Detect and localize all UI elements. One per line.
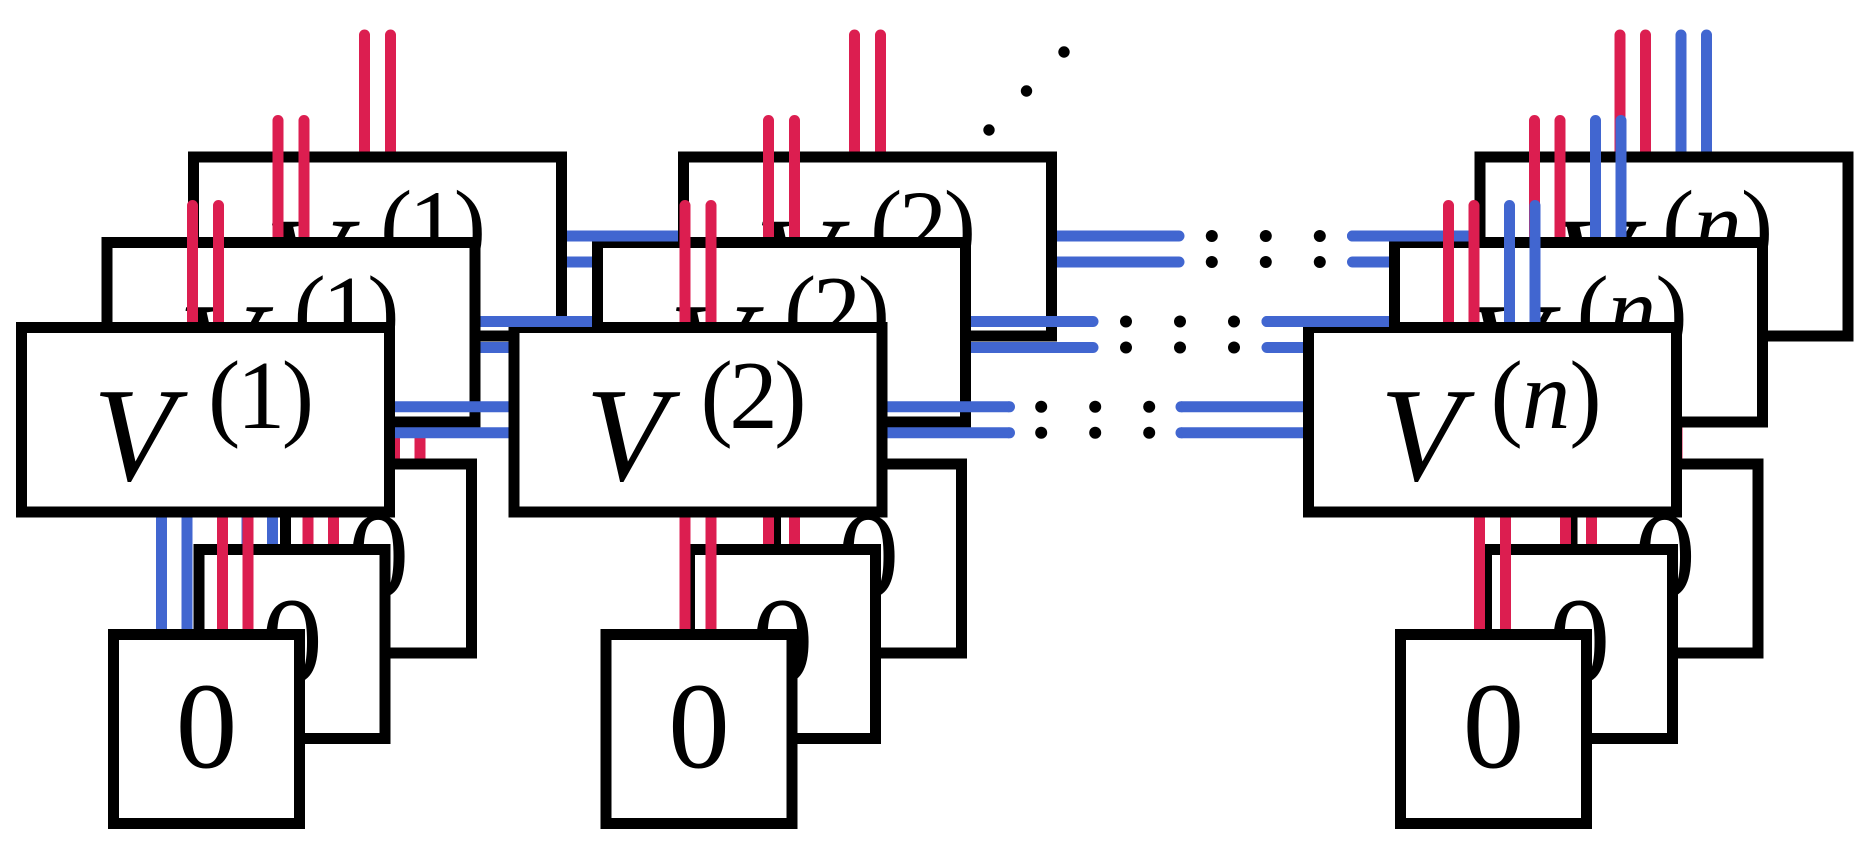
svg-text:0: 0 — [668, 658, 730, 795]
svg-text:V: V — [586, 361, 681, 509]
V box V^(n) group 3 layer 2 — [1480, 157, 1848, 336]
red leg 2 top of V group n layer 2 — [1640, 35, 1651, 158]
wire: upper bond line group1-group2 layer 2 — [567, 231, 678, 242]
red input leg 1 top of V group 1 layer 2 — [359, 35, 370, 158]
red leg 3 V-to-zero group 1 layer 1 — [303, 422, 314, 551]
wire: upper bond stub right of group2 layer 2 — [1057, 231, 1179, 242]
svg-text:V: V — [93, 361, 188, 509]
blue leg 4 top of V group n layer 0 — [1530, 206, 1541, 329]
red leg 1 top of V group n layer 1 — [1529, 121, 1540, 244]
red leg 1 V-to-zero group 3 layer 2 — [1646, 336, 1657, 465]
ellipsis dots on bond lines layer 0 — [1035, 401, 1047, 413]
svg-text:(1): (1) — [208, 342, 311, 449]
red leg 2 V-to-zero group 3 layer 2 — [1672, 336, 1683, 465]
blue leg 4 top of V group n layer 2 — [1701, 35, 1712, 158]
V box V^(1) group 1 layer 2 — [194, 157, 562, 336]
red leg 1 top of V group n layer 2 — [1615, 35, 1626, 158]
zero box group 2 layer 2 — [776, 464, 962, 653]
wire: upper bond stub right of group2 layer 0 — [888, 401, 1010, 412]
blue leg 2 V-to-zero group 1 layer 0 — [182, 512, 193, 636]
red leg 1 top of V group n layer 0 — [1443, 206, 1454, 329]
wire: upper bond stub left of group-n layer 1 — [1267, 316, 1389, 327]
red input leg 1 top of V group 1 layer 0 — [187, 206, 198, 329]
red input leg 2 top of V group 1 layer 2 — [385, 35, 396, 158]
red leg 4 V-to-zero group 1 layer 2 — [415, 336, 426, 465]
red input leg 2 top of V group 1 layer 1 — [299, 121, 310, 244]
V box V^(n) group 3 layer 0 — [1309, 328, 1677, 513]
blue leg 3 top of V group n layer 2 — [1676, 35, 1687, 158]
red leg 2 top of V group n layer 1 — [1555, 121, 1566, 244]
zero box group 3 layer 0 — [1401, 635, 1587, 824]
red input leg 2 top of V group 2 layer 2 — [875, 35, 886, 158]
zero box group 1 layer 1 — [199, 550, 385, 739]
wire overlay: upper middle bond stub left of group-n over front box corner — [1267, 316, 1389, 327]
red leg 2 V-to-zero group 3 layer 0 — [1500, 512, 1511, 636]
wire: upper bond line group1-group2 layer 0 — [395, 401, 509, 412]
zero box group 2 layer 0 — [606, 635, 792, 824]
blue leg 2 V-to-zero group 1 layer 2 — [354, 336, 365, 465]
wire: lower bond stub right of group2 layer 0 — [888, 427, 1010, 438]
wire overlay: upper back bond stub left of group-n over middle box corner — [1353, 231, 1475, 242]
red leg 3 V-to-zero group 1 layer 0 — [217, 512, 228, 636]
ellipsis dots on bond lines layer 1 — [1120, 316, 1132, 328]
V box V^(2) group 2 layer 2 — [684, 157, 1052, 336]
wire: upper bond line group1-group2 layer 1 — [481, 316, 593, 327]
blue leg 1 V-to-zero group 1 layer 2 — [328, 336, 339, 465]
zero box group 3 layer 1 — [1487, 550, 1673, 739]
red input leg 1 top of V group 1 layer 1 — [273, 121, 284, 244]
wire: lower bond stub left of group-n layer 0 — [1181, 427, 1303, 438]
wire: upper bond stub left of group-n layer 2 — [1353, 231, 1475, 242]
blue leg 4 top of V group n layer 1 — [1616, 121, 1627, 244]
red leg 1 V-to-zero group 3 layer 0 — [1474, 512, 1485, 636]
blue leg 1 V-to-zero group 1 layer 0 — [156, 512, 167, 636]
wire: lower bond stub right of group2 layer 1 — [971, 342, 1093, 353]
wire overlay: upper back bond group1-group2 over middle box corner — [567, 231, 678, 242]
blue leg 2 V-to-zero group 1 layer 1 — [267, 422, 278, 551]
zero box group 1 layer 2 — [286, 464, 472, 653]
V box V^(1) group 1 layer 1 — [107, 243, 475, 423]
svg-text:0: 0 — [176, 658, 238, 795]
red leg 4 V-to-zero group 1 layer 1 — [328, 422, 339, 551]
red input leg 2 top of V group 1 layer 0 — [213, 206, 224, 329]
red input leg 2 top of V group 2 layer 0 — [706, 206, 717, 329]
red input leg 2 top of V group 2 layer 1 — [789, 121, 800, 244]
V box V^(2) group 2 layer 1 — [598, 243, 966, 423]
wire overlay: upper middle bond group1-group2 over front box corner — [481, 316, 593, 327]
red leg 1 V-to-zero group 3 layer 1 — [1560, 422, 1571, 551]
red leg 2 V-to-zero group 2 layer 1 — [789, 422, 800, 551]
red input leg 1 top of V group 2 layer 0 — [680, 206, 691, 329]
wire: lower bond line group1-group2 layer 2 — [567, 257, 678, 268]
V box V^(2) group 2 layer 0 — [514, 328, 882, 513]
svg-text:0: 0 — [1463, 658, 1525, 795]
red input leg 1 top of V group 2 layer 2 — [849, 35, 860, 158]
svg-text:V: V — [1380, 361, 1475, 509]
svg-text:(n): (n) — [1491, 342, 1601, 449]
wire: upper bond stub right of group2 layer 1 — [971, 316, 1093, 327]
wire: upper bond stub left of group-n layer 0 — [1181, 401, 1303, 412]
red leg 2 V-to-zero group 3 layer 1 — [1586, 422, 1597, 551]
blue leg 3 top of V group n layer 1 — [1590, 121, 1601, 244]
wire: lower bond stub left of group-n layer 1 — [1267, 342, 1389, 353]
red leg 1 V-to-zero group 2 layer 1 — [763, 422, 774, 551]
svg-text:(2): (2) — [701, 342, 804, 449]
red leg 2 top of V group n layer 0 — [1469, 206, 1480, 329]
wire: lower bond stub left of group-n layer 2 — [1353, 257, 1475, 268]
red leg 1 V-to-zero group 2 layer 0 — [680, 512, 691, 636]
blue leg 3 top of V group n layer 0 — [1504, 206, 1515, 329]
red input leg 1 top of V group 2 layer 1 — [763, 121, 774, 244]
blue leg 1 V-to-zero group 1 layer 1 — [242, 422, 253, 551]
diagonal ellipsis dots top center — [1058, 46, 1069, 57]
zero box group 3 layer 2 — [1572, 464, 1758, 653]
zero box group 2 layer 1 — [690, 550, 876, 739]
wire: lower bond line group1-group2 layer 1 — [481, 342, 593, 353]
wire: lower bond line group1-group2 layer 0 — [395, 427, 509, 438]
ellipsis dots on bond lines layer 2 — [1206, 230, 1218, 242]
V box V^(1) group 1 layer 0 — [22, 328, 390, 513]
wire: lower bond stub right of group2 layer 2 — [1057, 257, 1179, 268]
red leg 1 V-to-zero group 2 layer 2 — [849, 336, 860, 465]
V box V^(n) group 3 layer 1 — [1395, 243, 1763, 423]
zero box group 1 layer 0 — [114, 635, 300, 824]
red leg 4 V-to-zero group 1 layer 0 — [243, 512, 254, 636]
red leg 3 V-to-zero group 1 layer 2 — [389, 336, 400, 465]
red leg 2 V-to-zero group 2 layer 2 — [875, 336, 886, 465]
red leg 2 V-to-zero group 2 layer 0 — [706, 512, 717, 636]
